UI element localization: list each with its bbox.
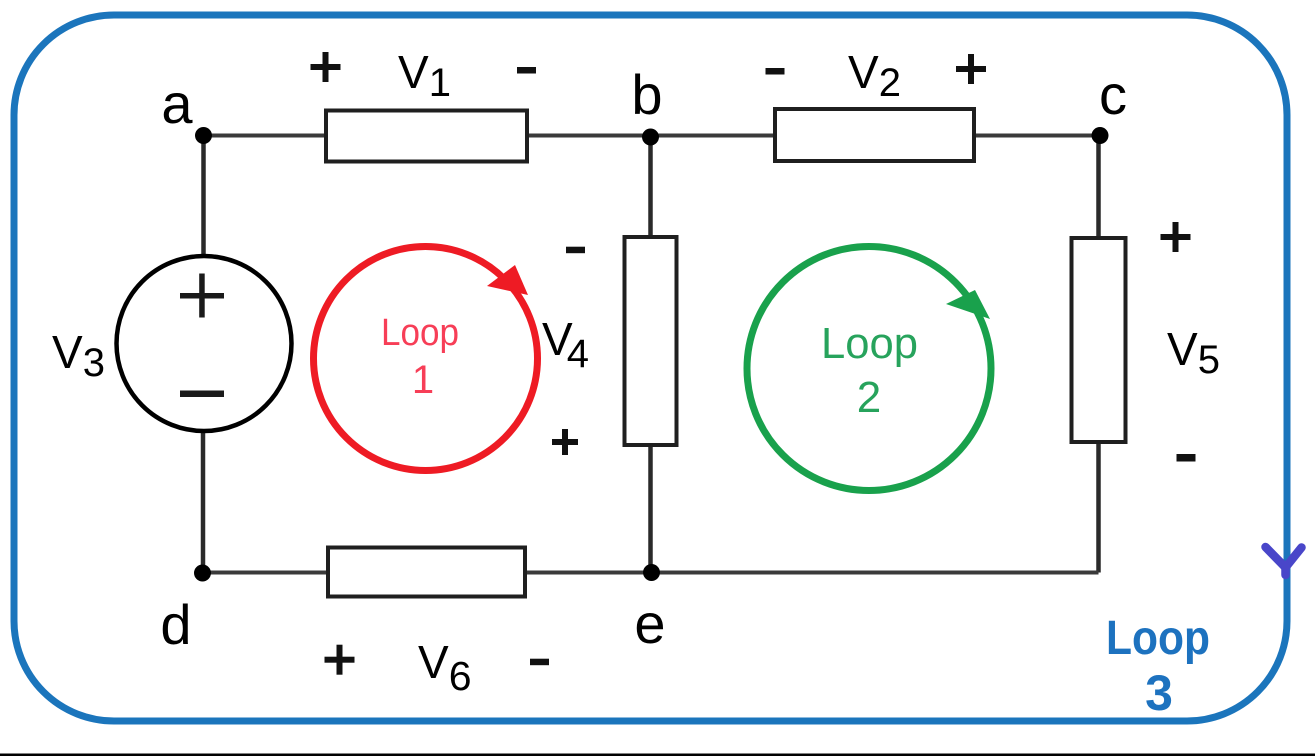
Loop 1 arrowhead <box>487 265 528 295</box>
svg-text:V2: V2 <box>848 46 901 105</box>
svg-text:V6: V6 <box>418 636 472 699</box>
resistor V2 (top right) <box>775 109 974 161</box>
resistor V6 (bottom) <box>328 548 525 597</box>
Loop 1 label <box>381 312 459 402</box>
svg-text:3: 3 <box>1145 665 1173 721</box>
svg-text:2: 2 <box>857 373 881 422</box>
node e (dot) <box>643 564 660 581</box>
svg-text:V4: V4 <box>542 313 589 376</box>
Loop 2 label <box>821 319 918 422</box>
svg-text:b: b <box>631 63 662 126</box>
wire d to V6 <box>203 571 329 575</box>
V4 polarity minus <box>566 247 585 254</box>
wire V5 bottom to corner <box>1096 442 1101 573</box>
V6 polarity minus <box>530 659 549 666</box>
V5 polarity plus <box>1161 222 1191 252</box>
wire c to V5 top <box>1096 136 1101 239</box>
wire a to V1 <box>204 134 327 138</box>
resistor V5 (right vertical) <box>1072 238 1126 442</box>
V6 polarity plus <box>325 645 355 675</box>
resistor V4 (middle vertical) <box>625 237 677 445</box>
wire V4 bottom to e <box>648 445 653 573</box>
Loop 3 direction arrow (indigo chevron on right border) <box>1266 547 1302 575</box>
Loop 1 circle (red, clockwise) <box>314 247 538 471</box>
svg-text:c: c <box>1099 63 1127 126</box>
wire V1 to b <box>527 134 651 138</box>
svg-text:V5: V5 <box>1167 323 1220 382</box>
V4 polarity plus <box>552 429 578 455</box>
svg-text:Loop: Loop <box>821 319 918 368</box>
node a (dot) <box>195 127 212 144</box>
node b (dot) <box>642 129 659 146</box>
V2 polarity minus <box>766 68 785 75</box>
resistor V1 (top left) <box>326 111 527 162</box>
V1 polarity plus <box>311 52 341 82</box>
voltage source V3 (circle) <box>117 256 292 431</box>
wire b to V2 <box>651 134 775 138</box>
wire a to V3 top <box>201 136 206 259</box>
V2 polarity plus <box>956 54 986 84</box>
wire V2 to c <box>974 134 1100 138</box>
V3 minus mark <box>180 391 224 398</box>
svg-text:V1: V1 <box>398 46 451 105</box>
svg-text:d: d <box>160 593 191 656</box>
V3 plus mark <box>180 274 224 318</box>
bottom black rule <box>0 754 1315 756</box>
Loop 2 arrowhead <box>946 290 990 319</box>
svg-text:a: a <box>161 72 193 135</box>
node c (dot) <box>1092 127 1109 144</box>
V1 polarity minus <box>517 67 536 74</box>
svg-text:Loop: Loop <box>1106 612 1210 665</box>
wire b to V4 top <box>648 136 653 238</box>
svg-text:Loop: Loop <box>381 312 459 354</box>
Loop 3 label <box>1106 612 1210 721</box>
V5 polarity minus <box>1177 454 1196 462</box>
wire V3 bottom to d <box>201 429 206 573</box>
node d (dot) <box>194 565 211 582</box>
svg-text:V3: V3 <box>52 326 105 385</box>
Loop 2 circle (green, clockwise) <box>747 247 991 491</box>
svg-text:1: 1 <box>412 358 434 402</box>
svg-text:e: e <box>634 592 665 655</box>
wire V6 to e and corner <box>525 571 1099 575</box>
